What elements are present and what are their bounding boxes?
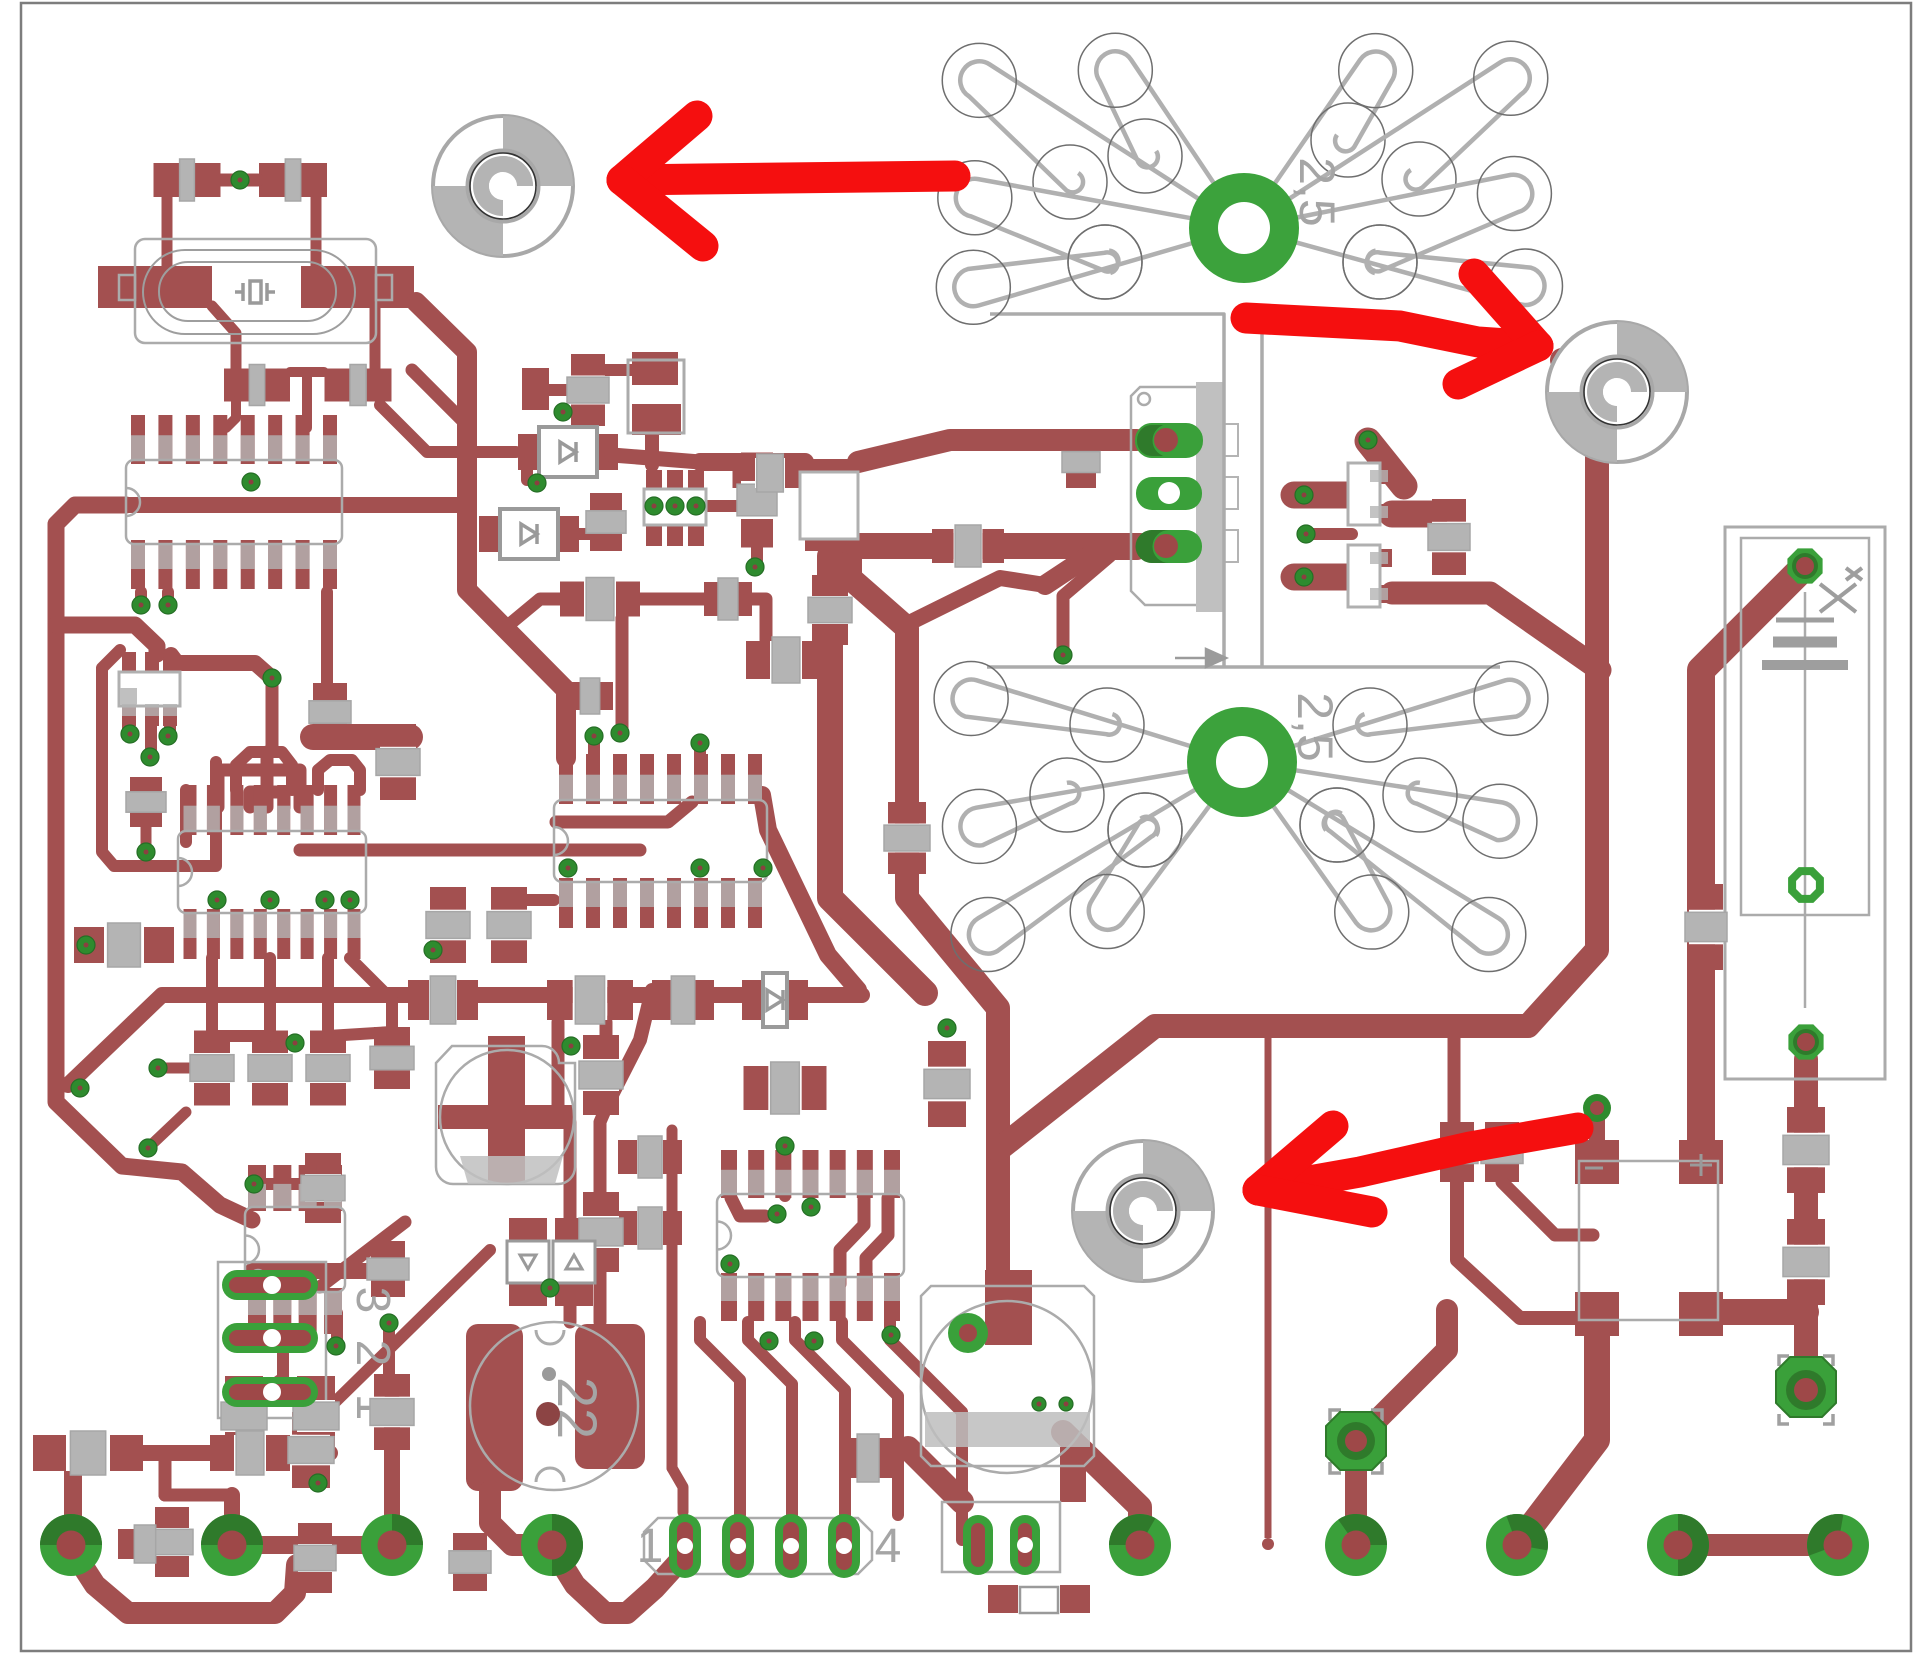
- svg-text:3: 3: [346, 1287, 399, 1314]
- svg-text:2: 2: [346, 1340, 399, 1367]
- svg-text:4: 4: [875, 1520, 902, 1573]
- svg-text:1: 1: [637, 1520, 664, 1573]
